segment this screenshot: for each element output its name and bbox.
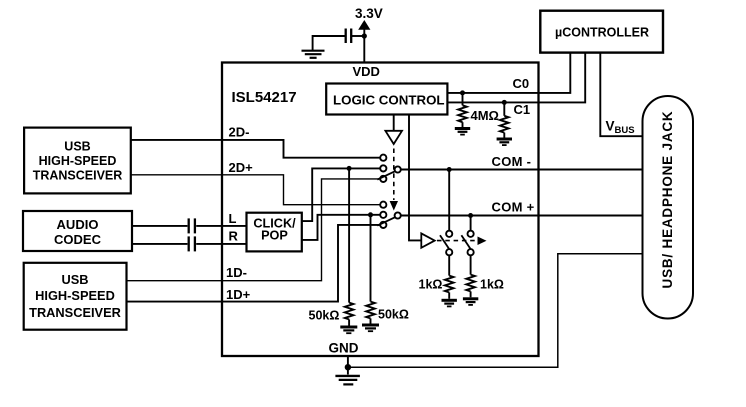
svg-text:COM +: COM + (492, 200, 535, 215)
net VBUS wire (600, 53, 643, 137)
ground (4M-A) (455, 129, 470, 135)
svg-text:C1: C1 (514, 102, 531, 117)
ground (50k-R) (362, 325, 379, 331)
wire logic control to buffer (409, 115, 421, 241)
net L wire left (132, 225, 187, 227)
resistor 4M-B (500, 102, 509, 137)
svg-text:3.3V: 3.3V (355, 6, 383, 21)
resistor 1k-A (445, 276, 454, 299)
junction COM+/switch B (468, 213, 473, 218)
svg-text:L: L (229, 211, 237, 226)
wire switch B to resistor (470, 255, 472, 274)
svg-text:GND: GND (329, 341, 359, 356)
USB transceiver box top (24, 128, 131, 194)
switch B arm (461, 235, 470, 249)
control dashed line vertical (393, 149, 395, 201)
svg-text:AUDIO: AUDIO (57, 217, 99, 232)
control dashed line horizontal (437, 240, 477, 242)
ground (1k-A) (442, 300, 457, 306)
svg-text:CODEC: CODEC (54, 232, 102, 247)
net 2D- wire (131, 140, 380, 158)
capacitor L coupling (189, 218, 195, 233)
logic control U-LOGIC (326, 84, 447, 115)
svg-text:USB: USB (61, 272, 88, 287)
net 1D- wire (127, 179, 381, 281)
net COM- wire (401, 169, 643, 171)
ground (50k-L) (340, 327, 357, 333)
connector USB/HEADPHONE JACK (643, 96, 694, 319)
capacitor R coupling (189, 236, 195, 251)
net C0 wire (447, 53, 570, 93)
ground (4M-B) (497, 139, 512, 145)
switch bank1 throw contacts (380, 155, 386, 182)
ground (1k-B) (463, 299, 478, 305)
svg-text:µCONTROLLER: µCONTROLLER (555, 26, 649, 40)
svg-text:TRANSCEIVER: TRANSCEIVER (33, 169, 123, 183)
wire cap to ground (313, 36, 346, 50)
svg-text:VDD: VDD (353, 64, 380, 79)
junction 50k-R tap (368, 212, 373, 217)
switch B contacts (468, 231, 474, 256)
net 1D+ wire (127, 225, 381, 302)
control arrow open triangle (385, 131, 402, 144)
resistor 50k-L with wire (345, 168, 354, 325)
junction GND (345, 364, 351, 370)
click/pop block (247, 213, 302, 252)
svg-text:2D+: 2D+ (229, 160, 254, 175)
svg-text:50kΩ: 50kΩ (309, 309, 340, 323)
svg-text:4MΩ: 4MΩ (471, 108, 499, 123)
net 2D+ wire (131, 175, 380, 205)
svg-text:C0: C0 (513, 76, 530, 91)
svg-text:1kΩ: 1kΩ (480, 278, 504, 292)
switch bank2 arm (377, 217, 395, 226)
control arrowhead right (478, 237, 487, 246)
capacitor bypass (346, 29, 352, 44)
svg-text:HIGH-SPEED: HIGH-SPEED (39, 154, 117, 168)
ground (bypass cap) (302, 51, 325, 58)
wire cap to VDD node (351, 35, 365, 37)
net L wire right (196, 225, 246, 227)
resistor 50k-R with wire (366, 215, 375, 324)
svg-text:2D-: 2D- (229, 125, 250, 140)
main IC box ISL54217 (222, 63, 539, 357)
ground (main GND) (335, 376, 360, 385)
wire click/pop out2 to bank2 throw2 (302, 215, 380, 240)
switch bank1 pole (395, 166, 401, 172)
wire GND to jack return (348, 254, 643, 368)
junction C0/4M (460, 90, 465, 95)
net R wire right (196, 243, 246, 245)
switch bank2 pole (395, 212, 401, 218)
wire logic control to bank arrow (393, 115, 395, 131)
junction C1/4M (502, 100, 507, 105)
wire GND pin down (347, 356, 349, 367)
junction VDD/cap (362, 33, 367, 38)
svg-text:HIGH-SPEED: HIGH-SPEED (35, 288, 115, 303)
wire COM+ to switch B (470, 216, 472, 231)
svg-text:1kΩ: 1kΩ (419, 278, 443, 292)
wire COM- to switch A (448, 170, 450, 231)
USB transceiver box bottom (24, 263, 127, 330)
svg-text:1D-: 1D- (226, 265, 247, 280)
svg-text:USB: USB (64, 139, 90, 153)
microcontroller box U2 (540, 11, 663, 53)
buffer triangle (421, 233, 434, 247)
svg-text:POP: POP (261, 229, 288, 243)
svg-text:USB/ HEADPHONE JACK: USB/ HEADPHONE JACK (660, 111, 675, 289)
svg-text:R: R (229, 229, 239, 244)
switch bank2 throw contacts (380, 202, 386, 228)
switch A arm (440, 235, 449, 249)
wire click/pop out1 to bank1 throw2 (302, 168, 380, 221)
control arrowhead down (390, 201, 398, 211)
wire 3.3V to VDD pin (363, 27, 365, 63)
svg-text:ISL54217: ISL54217 (232, 89, 297, 106)
svg-text:50kΩ: 50kΩ (378, 308, 409, 322)
svg-text:LOGIC CONTROL: LOGIC CONTROL (333, 93, 445, 108)
junction 50k-L tap (347, 166, 352, 171)
svg-text:1D+: 1D+ (226, 287, 251, 302)
supply arrow 3.3V (358, 20, 370, 30)
net R wire left (132, 243, 187, 245)
switch bank1 arm (377, 171, 395, 180)
resistor 1k-B (466, 275, 475, 298)
svg-text:COM -: COM - (492, 154, 532, 169)
wire GND junction to earth (347, 367, 349, 374)
audio codec box (23, 211, 132, 251)
junction COM-/switch A (447, 167, 452, 172)
switch A contacts (446, 231, 452, 256)
net COM+ wire (401, 215, 643, 217)
svg-text:TRANSCEIVER: TRANSCEIVER (29, 305, 121, 320)
resistor 4M-A (458, 93, 467, 127)
net C1 wire (447, 53, 585, 103)
wire switch A to resistor (448, 255, 450, 275)
